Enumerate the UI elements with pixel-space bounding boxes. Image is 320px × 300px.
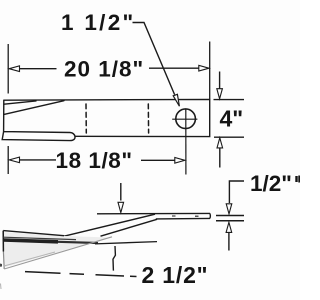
side view: bar bottom [156, 217, 210, 220]
right extension line above blade [209, 42, 211, 100]
left extension line (lower segment) [7, 146, 9, 174]
dimension 1/2: top extension line [216, 215, 244, 217]
plan view cutting-edge bevel line 2 [4, 101, 64, 115]
svg-text:20 1/8": 20 1/8" [64, 57, 144, 82]
bolt hole circle [176, 109, 196, 129]
side view: wedge grey wash fill [3, 232, 109, 268]
side view: faint ghost diagonal 2 [4, 252, 55, 266]
side view: dark sharpened band [3, 240, 58, 242]
side view: dark sharpened band right part [58, 242, 98, 243]
dimension 1/2: up arrowhead [226, 222, 232, 232]
side view: bar right end cap [209, 213, 211, 218]
left extension line (upper segment) [7, 44, 9, 94]
dimension 2 1/2: dashed reference line [25, 272, 137, 277]
leader line from 1 1/2 label to hole [133, 23, 175, 95]
dimension 4 inch: down arrow shaft [219, 72, 221, 90]
dimension 20 1/8: left shaft [20, 68, 57, 70]
dimension 2 1/2: down arrow shaft [120, 183, 122, 201]
side view: wedge left edge faint lower part [2, 252, 5, 270]
dimension 2 1/2: jogged extension line [113, 246, 115, 271]
dimension 4 inch: down arrowhead [217, 89, 223, 99]
leader open arrowhead at hole [173, 94, 179, 106]
dimension 4 inch: up arrowhead [217, 138, 223, 148]
side view: faint ghost diagonal [4, 237, 112, 269]
side view: bend top line [62, 214, 155, 237]
dimension 18 1/8: right arrow [175, 158, 185, 164]
dimension 4 inch: up arrow shaft [219, 148, 221, 168]
plan view bottom-left lozenge (down-turned lip) [2, 132, 75, 141]
bolt hole crosshair horizontal [172, 118, 197, 120]
bend line (dashed) left [85, 104, 87, 133]
bend line (dashed) right [147, 104, 149, 133]
svg-text:18 1/8": 18 1/8" [56, 148, 133, 173]
plan view cutting-edge bevel line 1 [4, 101, 36, 104]
dimension 1/2: bottom extension line [216, 220, 244, 222]
scan speck left edge lower [0, 284, 2, 290]
dimension 2 1/2: down arrowhead [118, 202, 124, 212]
side view: bend bottom line [101, 219, 158, 236]
side view: top line with bar top [97, 212, 210, 214]
svg-text:1 1/2": 1 1/2" [61, 10, 136, 35]
scan speck bottom-left margin [0, 264, 2, 267]
side view: bar tick marks [172, 215, 199, 217]
dimension 20 1/8: right shaft [149, 67, 200, 69]
dimension 1/2: leader [229, 181, 244, 203]
dimension 1/2: stray mark right edge [297, 176, 300, 183]
svg-text:4": 4" [220, 106, 244, 132]
side view: wedge top line [3, 231, 64, 236]
dimension 1/2: up arrow shaft [228, 232, 230, 250]
dimension 18 1/8: right shaft [141, 159, 176, 161]
svg-text:1/2": 1/2" [250, 171, 292, 196]
svg-text:2 1/2": 2 1/2" [142, 262, 209, 288]
dimension 1/2: down arrowhead [226, 204, 232, 214]
dimension 18 1/8: left arrow [9, 157, 19, 163]
dimension 4 inch: top extension line [214, 99, 245, 101]
dimension 20 1/8: right arrow [199, 65, 209, 71]
blade plan view outline [4, 99, 210, 136]
bolt hole centerline vertical / 18 1/8 right extension [185, 109, 187, 175]
side view: dark sharpened band upper [3, 237, 76, 239]
side view: wedge left edge [2, 231, 4, 252]
dimension 4 inch: bottom extension line [214, 136, 244, 138]
side view: bottom plane reference line [95, 242, 157, 244]
dimension 18 1/8: left shaft [20, 159, 57, 161]
dimension 20 1/8: left arrow [9, 66, 19, 72]
